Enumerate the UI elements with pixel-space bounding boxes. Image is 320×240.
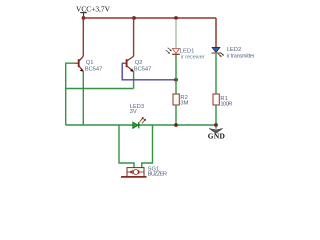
- wire buzzer right leg: [142, 125, 153, 168]
- resistor R1: [213, 94, 219, 105]
- LED1 ir receiver diode: [166, 48, 180, 55]
- svg-text:ir receiver: ir receiver: [181, 55, 205, 61]
- junction Q2 base / LED1 cathode node: [174, 78, 178, 82]
- wire LED2 cathode to R1: [215, 54, 217, 94]
- wire R1 to ground junction: [215, 105, 217, 125]
- wire VCC rail: [84, 17, 217, 19]
- wire Q2 base violet: [122, 63, 176, 80]
- svg-text:3M: 3M: [180, 101, 188, 107]
- wire LED1 cathode to R2: [175, 55, 177, 94]
- junction rail / LED1 branch: [174, 16, 178, 20]
- wire R2 to ground rail: [175, 105, 177, 125]
- svg-text:BC547: BC547: [134, 66, 152, 72]
- svg-text:BC547: BC547: [85, 66, 103, 72]
- junction R2 / ground rail: [174, 123, 178, 127]
- svg-text:BUZZER: BUZZER: [148, 172, 168, 178]
- LED2 ir transmitter diode: [211, 48, 224, 57]
- LED3 indicator diode: [133, 117, 146, 128]
- svg-text:Q1: Q1: [86, 60, 94, 66]
- junction VCC: [82, 16, 86, 20]
- wire Q2 emitter down: [133, 72, 135, 89]
- svg-text:ir transmitter: ir transmitter: [227, 54, 255, 60]
- svg-text:100R: 100R: [220, 102, 232, 108]
- svg-text:VCC+3,7V: VCC+3,7V: [76, 4, 111, 13]
- wire rail to Q2 collector: [133, 18, 135, 56]
- wire rail to LED1 anode (pale): [175, 19, 177, 48]
- wire rail corner to LED2 anode: [215, 18, 217, 47]
- wire Q1 emitter down: [82, 71, 84, 125]
- ground rail wire: [66, 124, 216, 126]
- wire Q1 base to bottom rail: [66, 63, 75, 125]
- junction rail / Q2 branch: [132, 16, 136, 20]
- wire cross link to Q2 emitter: [66, 88, 134, 90]
- svg-text:LED2: LED2: [227, 47, 242, 53]
- svg-text:GND: GND: [208, 132, 225, 141]
- junction R1 / GND: [214, 123, 218, 127]
- wire buzzer left leg: [119, 125, 134, 168]
- VCC supply symbol: [80, 13, 87, 18]
- resistor R2: [173, 94, 179, 105]
- ground symbol GND: [208, 125, 225, 141]
- svg-text:Q2: Q2: [135, 60, 143, 66]
- transistor Q1: [75, 56, 84, 72]
- svg-text:3V: 3V: [130, 109, 137, 115]
- transistor Q2: [122, 56, 134, 72]
- buzzer SG1: [121, 168, 147, 177]
- wire rail to Q1 collector: [82, 18, 84, 56]
